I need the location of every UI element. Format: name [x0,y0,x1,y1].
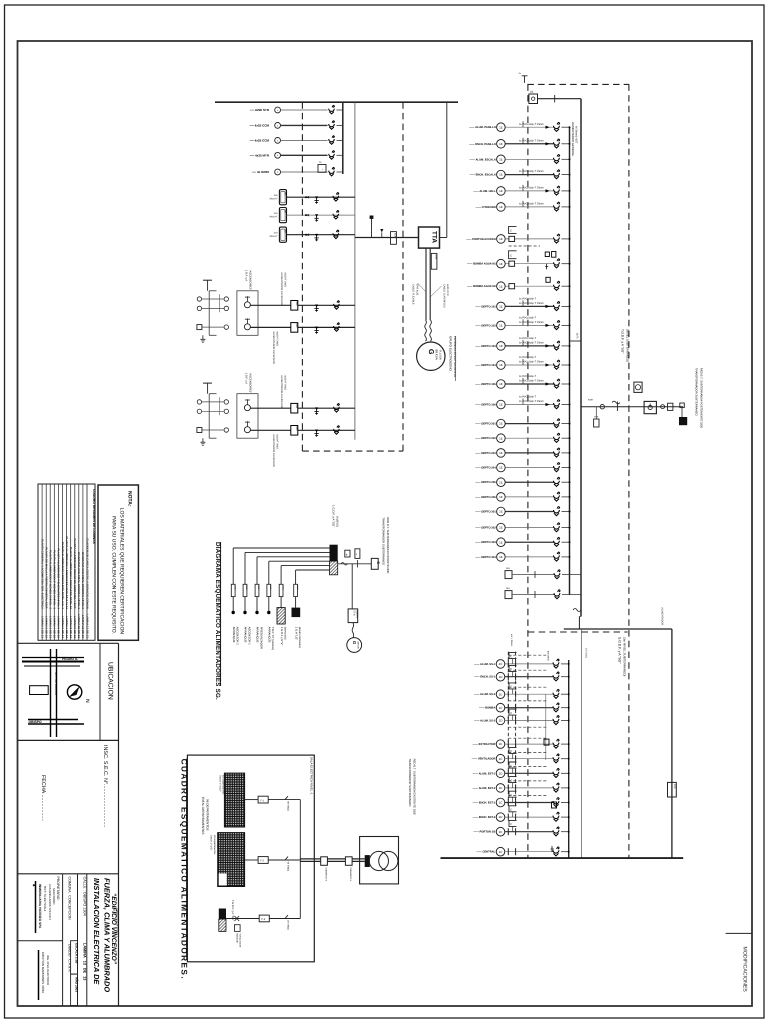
svg-text:—— ENCH. SS-1: —— ENCH. SS-1 [474,676,496,679]
motor group 1: breaker 1 [334,301,340,309]
feeder row L3 (lower right column) [474,683,570,699]
svg-text:4x16+T AWG: 4x16+T AWG [284,375,287,390]
feeder row U15 (upper right column) [475,396,570,409]
svg-text:══ 4x25 CCM: ══ 4x25 CCM [249,124,270,128]
motor group 1: starter box [237,291,258,336]
fuse circle after Q [661,405,665,409]
svg-text:25 KW(s): 25 KW(s) [287,920,290,930]
svg-text:LOS MATERIALES QUE REQUIEREN C: LOS MATERIALES QUE REQUIEREN CERTIFICACI… [119,508,125,635]
Q disconnect box [644,401,656,413]
svg-text:—— ALUM. SS-2: —— ALUM. SS-2 [474,693,496,696]
svg-text:ING. CIVIL ELECTRICO: ING. CIVIL ELECTRICO [46,955,50,986]
svg-text:88 KVA: 88 KVA [435,350,439,361]
svg-text:LAMINA 3 DE 13: LAMINA 3 DE 13 [49,616,53,638]
svg-text:1 D.F. y A: 1 D.F. y A [245,373,248,385]
svg-text:48 departamentos: 48 departamentos [222,775,225,795]
feeder row U17 (upper right column) [475,433,570,442]
feeder line F5 (diagrama alimentadores) [279,566,329,646]
svg-text:4x PVC(4x6)+T: 4x PVC(4x6)+T [519,375,537,378]
svg-text:4x35: 4x35 [434,255,437,261]
svg-text:4x16+T AWG: 4x16+T AWG [276,331,279,346]
svg-text:1E: 1E [499,830,503,834]
svg-text:4x PVC(4x6)+T: 4x PVC(4x6)+T [519,298,537,301]
generator G 88KVA circle [417,342,445,370]
svg-text:(servicios): (servicios) [284,627,288,640]
dashed enclosure right: left vertical [527,84,529,858]
svg-text:C: C [510,655,512,658]
feeder row L13 (lower right column) [476,847,569,856]
feeder line F4 (diagrama alimentadores) [267,561,330,650]
svg-text:1E: 1E [499,403,503,407]
svg-text:—— ALUM. SS-1: —— ALUM. SS-1 [474,663,496,666]
feeder row U3 (upper right column) [469,155,570,164]
aux box J above wire [355,549,360,559]
motor group 2: breaker 2 [334,426,340,434]
escala sub-box [71,941,78,974]
svg-text:1E: 1E [499,382,503,386]
bus drop left block [342,102,344,174]
feeder F6 solid load [292,608,301,618]
inline box on right feeder [668,782,677,797]
wire TGDF to F-3 [226,918,259,920]
svg-text:4x PVC(4x6)+T: 4x PVC(4x6)+T [519,317,537,320]
svg-text:COMUNA : CONCEPCION: COMUNA : CONCEPCION [68,877,72,921]
svg-text:NUEVO: NUEVO [356,610,359,618]
generator connection squiggles [425,320,427,341]
svg-text:KWH: KWH [394,233,397,238]
svg-text:—— EXTRACTOR: —— EXTRACTOR [473,743,496,746]
dashed enclosure left block: bottom [302,450,403,452]
svg-text:PLANTA DE MALLA A TIERRA GENER: PLANTA DE MALLA A TIERRA GENERAL EDIF. [44,547,48,609]
map: lower horizontal street [28,719,78,721]
svg-text:RED B.T. SUBTERRANEA POSTENIEN: RED B.T. SUBTERRANEA POSTENIENTE DDE [700,368,704,428]
svg-text:48 departamentos: 48 departamentos [213,835,216,855]
meter circle on wire [600,405,604,409]
DEL feeder row D1 [505,571,512,579]
feeder row U19 (upper right column) [475,463,570,472]
motor group 2: contactor circles [224,400,228,404]
motor group 2: ICM box 2 [291,426,298,436]
svg-text:CAMARA N°1: CAMARA N°1 [349,868,352,882]
line down to TTA nuevo [351,564,353,609]
svg-text:4x6 AWG: 4x6 AWG [547,651,550,661]
motor group 1: output wire 1 [250,304,290,306]
svg-text:LAMINA 8 DE 13: LAMINA 8 DE 13 [69,616,73,638]
wire bus to pole transformer [581,406,683,408]
svg-text:LAMINA 11 DE 13: LAMINA 11 DE 13 [81,615,85,639]
svg-text:1E: 1E [499,363,503,367]
svg-text:AÑO 2003: AÑO 2003 [75,977,79,992]
svg-text:PLANTA ALUMBRADO Y ENCHUFES NI: PLANTA ALUMBRADO Y ENCHUFES NIVEL 2 AL 7 [61,542,65,609]
svg-text:LAMINA 1 DE 13: LAMINA 1 DE 13 [40,616,44,638]
svg-text:96 DEPARTAMENTOS: 96 DEPARTAMENTOS [205,799,209,831]
top bus line [215,101,458,103]
svg-text:SAN PEDRO: SAN PEDRO [52,888,56,905]
svg-text:AWG+T: AWG+T [269,198,278,201]
svg-text:LOS AVELLANOS 1234 OF.7: LOS AVELLANOS 1234 OF.7 [48,884,52,921]
svg-text:1 D.F. y A: 1 D.F. y A [245,270,248,282]
svg-text:KWH: KWH [588,399,594,402]
service entry symbol above enclosure [522,75,528,77]
lower column bus [568,660,570,858]
TGDF SG element (black+hatch) [219,909,226,920]
svg-text:—— ALUM. HALL: —— ALUM. HALL [473,190,496,193]
svg-text:(3er NIVEL SUBTERRANEO): (3er NIVEL SUBTERRANEO) [623,637,627,676]
propietario signature line [35,881,37,933]
lower column dashed row links [508,654,546,656]
svg-text:ESCALA 1:50: ESCALA 1:50 [75,943,79,963]
aux contact boxes near rows U7-U9 [545,252,549,257]
generator cable pair [425,248,427,320]
feeder row U7 (upper right column) [466,234,570,243]
svg-text:—— DEPTO 202: —— DEPTO 202 [475,437,496,440]
svg-text:LAMINA 9 DE 13: LAMINA 9 DE 13 [73,616,77,638]
svg-text:DIAGRAMA UNILINEAL GENERAL NIV: DIAGRAMA UNILINEAL GENERAL NIVEL 1 [77,552,81,609]
TTA nuevo box [348,609,358,623]
feeder line F1 (diagrama alimentadores) [231,548,329,645]
svg-text:ICM: ICM [295,426,298,430]
feeder row L10 (lower right column) [473,791,570,807]
DEL feeder row D2 [505,591,512,599]
svg-text:▪: ▪ [322,169,323,172]
TTA box [419,227,440,248]
motor group 1: ground symbol [202,335,204,339]
row U7 control dashes [509,245,540,247]
feeder row U22 (upper right column) [475,507,570,516]
E meter box [371,558,378,569]
feeder line F2 (diagrama alimentadores) [243,552,329,645]
feeder row L6 (lower right column) [473,739,570,748]
svg-text:ALIMENTADOR ASCENSOR: ALIMENTADOR ASCENSOR [272,331,275,364]
svg-text:3x32: 3x32 [257,585,260,589]
service black rect [681,408,683,417]
svg-text:1E: 1E [499,480,503,484]
wire strip1 to F-1 [245,799,259,801]
svg-text:C: C [510,668,512,671]
svg-text:E: E [376,562,381,565]
feeder row U14 (upper right column) [475,375,570,388]
transformer winding circles [369,851,388,870]
svg-text:1E: 1E [499,284,503,288]
svg-text:ARRANQUE: ARRANQUE [244,627,248,643]
map: north compass symbol [67,685,81,699]
motor group 1: antenna T [203,279,212,281]
svg-text:3x32: 3x32 [296,585,299,589]
svg-text:TTA: TTA [431,231,438,243]
svg-text:PLANTA GENERAL Y ACOMETIDA TER: PLANTA GENERAL Y ACOMETIDA TER. ELECTRIC… [40,539,44,609]
svg-text:4x16+T AWG: 4x16+T AWG [284,272,287,287]
right feeder vertical to bottom bus [671,629,673,858]
motor group 2: fuse 2 [314,430,318,437]
motor feeder row M4 (top-left block) [249,151,343,159]
motor group 2: breaker 1 [334,404,340,412]
svg-text:══ 4x GR55: ══ 4x GR55 [251,170,269,174]
title block: section divider lines [18,642,119,644]
svg-text:CALLE : OBISPO 1304: CALLE : OBISPO 1304 [83,877,87,916]
motor feeder row M5 (top-left block) [251,161,343,176]
svg-text:D: D [320,161,322,164]
motor group 2: bracket [208,394,210,439]
svg-text:—— DEPTO 203: —— DEPTO 203 [475,452,496,455]
feeder F5 hatched load [277,608,285,624]
lower column aux boxes [544,739,549,745]
switch tick on TTA feed [371,217,373,238]
svg-text:PLANTA ALUMBRADO RECINTOS COMU: PLANTA ALUMBRADO RECINTOS COMUNES Y EXT. [73,538,77,609]
small label box below TTA [431,253,437,269]
svg-text:OBISPO: OBISPO [29,720,43,724]
svg-text:RED B.T. SUBTERRANEA EXISTENTE: RED B.T. SUBTERRANEA EXISTENTE DDE [413,759,417,815]
bracket box above row U7 [509,226,517,233]
feeder row U21 (upper right column) [475,492,570,501]
motor group 1: ICM box 1 [291,301,298,311]
svg-text:CAMARA N°2: CAMARA N°2 [324,868,327,882]
svg-text:AV. P. DE VALDIVIA: AV. P. DE VALDIVIA [54,672,57,695]
feeder row U2 (upper right column) [469,138,570,148]
junction vertical in sala box [299,800,301,919]
svg-text:4x PVC(4x6)+T: 4x PVC(4x6)+T [519,356,537,359]
svg-text:1E: 1E [499,786,503,790]
bus junction marker [570,340,582,342]
svg-text:PLANTA ALUMBRADO Y ENCHUFES NI: PLANTA ALUMBRADO Y ENCHUFES NIVEL 1 [57,548,61,609]
relay row R3 (rounded box to collector) [269,227,355,242]
svg-text:C: C [510,230,512,233]
svg-text:T.G.D.F. y A “SG”: T.G.D.F. y A “SG” [231,900,234,921]
vertical feed to TTA [446,102,448,237]
svg-text:Desde 1° al 3°: Desde 1° al 3° [210,835,213,850]
dashed enclosure right: inner horizontal [528,631,628,633]
terminal strip 2 (48 dptos) [218,833,245,887]
modificaciones cell divider line [726,932,752,934]
svg-text:PLANTA ALUMBRADO Y ENCHUFES NI: PLANTA ALUMBRADO Y ENCHUFES NIVEL 12 [69,547,73,610]
svg-text:(NUEVO): (NUEVO) [335,516,338,527]
motor group 1: ICM box 2 [291,323,298,333]
motor group 2: ICM box 1 [291,403,298,413]
svg-text:—— DEPTO 201: —— DEPTO 201 [475,423,496,426]
feeder row U1 (upper right column) [469,121,570,131]
svg-text:3x32: 3x32 [269,585,272,589]
feeder row L1 (lower right column) [474,653,570,669]
svg-text:—— PORTON ACCESO: —— PORTON ACCESO [466,238,496,241]
SGDF drop light vertical [580,629,582,858]
main breaker box (D) [529,94,538,104]
svg-text:1E: 1E [499,142,503,146]
svg-text:4x PVC(4x6)+T: 4x PVC(4x6)+T [519,337,537,340]
clock box [634,382,642,392]
svg-text:POTENCIA EFECTIVA 88 KVA: POTENCIA EFECTIVA 88 KVA [453,336,457,377]
dashed enclosure right: top [527,83,629,85]
ubicacion section divider [99,643,101,740]
svg-text:TRANSFORMADOR SUBTERRANEO: TRANSFORMADOR SUBTERRANEO [408,759,412,808]
svg-text:—— DEPTO 302: —— DEPTO 302 [475,527,496,530]
svg-text:—— BOMBA AGUA N2: —— BOMBA AGUA N2 [467,285,496,288]
svg-text:4x16+T AWG: 4x16+T AWG [276,434,279,449]
svg-text:RM: RM [283,192,286,195]
svg-text:—— ALUM. ESCALA: —— ALUM. ESCALA [469,158,495,161]
svg-text:LAMINA 5 DE 13: LAMINA 5 DE 13 [57,616,61,638]
anno sub-box [71,974,78,1006]
svg-text:LAMINA 10 DE 13: LAMINA 10 DE 13 [77,615,81,639]
feeder row U24 (upper right column) [475,537,570,546]
feeder row U10 (upper right column) [475,298,570,311]
svg-text:TRANSFORMADOR SUBTERRANEO: TRANSFORMADOR SUBTERRANEO [381,517,385,566]
dashed enclosure left block: vertical 2 [402,102,404,451]
wire F-2 onward [268,859,300,861]
main bus B [580,99,582,617]
svg-text:C: C [510,823,512,826]
svg-text:em t. 25mm: em t. 25mm [510,634,513,646]
wire strip2 to F-2 [245,859,259,861]
svg-text:—— DEPTO 105: —— DEPTO 105 [475,383,496,386]
svg-text:1E: 1E [499,742,503,746]
motor group 1: input circles [197,297,201,301]
svg-text:1E: 1E [499,422,503,426]
svg-text:—— PORTON SS: —— PORTON SS [473,831,495,834]
svg-text:ASCENSOR 2: ASCENSOR 2 [236,627,240,645]
F-1 box [258,796,268,803]
svg-text:PARA SU USO, CUMPLEN CON ESTE: PARA SU USO, CUMPLEN CON ESTE REQUISITO. [111,516,117,634]
svg-text:4x35 mm2: 4x35 mm2 [446,284,449,296]
svg-text:1 G.A “LG”: 1 G.A “LG” [294,627,298,640]
svg-text:N: N [84,699,90,703]
title block: NOTA box [98,485,138,640]
motor feeder row M3 (top-left block) [249,136,343,144]
svg-text:══ 4x25 CCM: ══ 4x25 CCM [249,139,270,143]
svg-text:RM: RM [283,210,286,213]
title block: cuadro resumen de laminas table [38,484,95,640]
svg-text:(areas comunes): (areas comunes) [298,627,302,648]
svg-text:PLANTA ALUMBRADO 2° NCHES 3 NI: PLANTA ALUMBRADO 2° NCHES 3 NIVEL -1 [53,550,57,610]
svg-text:—— CITOFONO: —— CITOFONO [476,206,496,209]
svg-text:4x70mm2+35T: 4x70mm2+35T [574,126,577,144]
svg-text:—— DEPTO 106: —— DEPTO 106 [475,404,496,407]
inline fuse boxes rows U7-U9 [509,236,515,241]
double feeder line to transformer [300,858,364,860]
feeder row L8 (lower right column) [473,762,570,778]
feeder row U11 (upper right column) [475,317,570,330]
svg-text:ALIMENTADOR ASCENSOR: ALIMENTADOR ASCENSOR [280,375,283,408]
svg-text:SALA ELECTRICA NIVEL -1: SALA ELECTRICA NIVEL -1 [309,757,313,795]
svg-text:—— VENTILADOR: —— VENTILADOR [472,758,496,761]
svg-text:F-3: F-3 [261,918,265,921]
svg-text:1E: 1E [499,262,503,266]
wire from collector to TTA [355,237,419,239]
svg-text:(D): (D) [530,91,534,94]
motor group 1: breaker 2 [334,323,340,331]
F-2 box [258,857,268,864]
svg-text:—— DEPTO 204: —— DEPTO 204 [475,467,496,470]
TPS box [594,419,599,427]
svg-text:1E: 1E [499,495,503,499]
svg-text:96 KW(s): 96 KW(s) [287,862,290,872]
main title block internal lines [62,874,64,1006]
svg-text:1E: 1E [499,436,503,440]
svg-text:1E: 1E [499,510,503,514]
svg-text:1E: 1E [499,189,503,193]
svg-text:CABLE SUPERFLEX: CABLE SUPERFLEX [443,284,446,308]
svg-text:AWG+T: AWG+T [269,216,278,219]
svg-text:RUT: 76.297.530-4: RUT: 76.297.530-4 [43,886,47,912]
svg-text:—— ALUM. EST-1: —— ALUM. EST-1 [473,772,496,775]
svg-text:DIAGRAMA ESQUEMATICO ALIMENTAD: DIAGRAMA ESQUEMATICO ALIMENTADORES SG. [214,542,221,700]
svg-text:—— ENCH. EST-1: —— ENCH. EST-1 [473,802,496,805]
svg-text:FECHA ..................: FECHA .................. [40,775,46,821]
svg-text:“ASCENSORES”: “ASCENSORES” [249,373,252,394]
svg-text:INSTALACION ELECTRICA DE: INSTALACION ELECTRICA DE [92,878,101,985]
feeder row U12 (upper right column) [475,337,570,350]
svg-text:—— DEPTO 104: —— DEPTO 104 [475,364,496,367]
svg-text:PEDRO A.: PEDRO A. [62,657,78,661]
svg-text:ARRANQUE: ARRANQUE [256,627,260,643]
svg-text:EPR 4x35: EPR 4x35 [416,284,419,296]
squiggle + tick [612,401,620,404]
SGDF horizontal feeder line [564,628,672,630]
svg-text:MODIFICACIONES: MODIFICACIONES [741,947,747,993]
feeder line F6 (diagrama alimentadores) [294,570,330,648]
svg-text:ARRANQUE: ARRANQUE [232,627,236,643]
motor group 1: fuse 2 [314,327,318,334]
dashed enclosure right: right vertical [628,84,630,858]
lower column aux vertical [545,694,547,760]
main block TGDF (black+hatch) [330,545,338,561]
svg-text:1E: 1E [499,125,503,129]
svg-text:3x32: 3x32 [281,585,284,589]
svg-text:—— DEPTO 304: —— DEPTO 304 [475,556,496,559]
feeder row U5 (upper right column) [473,185,570,195]
feeder row L7 (lower right column) [472,747,570,763]
svg-text:1E: 1E [499,157,503,161]
svg-text:—— DEPTO 205: —— DEPTO 205 [475,481,496,484]
svg-text:ALIMENTADOR: ALIMENTADOR [661,607,664,625]
svg-text:—— DEPTO 102: —— DEPTO 102 [475,324,496,327]
svg-text:RED B.T. SUBTERRANEA EXISTENTE: RED B.T. SUBTERRANEA EXISTENTE DDE [386,517,390,573]
svg-text:ASCENSOR 1: ASCENSOR 1 [247,627,251,645]
svg-text:RM: RM [283,230,286,233]
svg-text:1E: 1E [499,451,503,455]
aux symbol below TGDF wire [235,925,241,932]
svg-text:CRISTIAN MARDONES VERA: CRISTIAN MARDONES VERA [41,952,45,993]
svg-text:TOTALIZADOR: TOTALIZADOR [238,933,241,947]
motor group 1: contactor circles [224,297,228,301]
svg-text:1E: 1E [499,555,503,559]
svg-text:4x70: 4x70 [575,333,578,339]
svg-text:4S KW(s): 4S KW(s) [585,648,588,658]
svg-text:—— BOMBA: —— BOMBA [479,707,495,710]
svg-text:G: G [352,641,357,644]
svg-text:MEDIDOR: MEDIDOR [236,933,239,943]
motor group 1: bracket [208,291,210,336]
feeder row L5 (lower right column) [474,709,570,725]
svg-text:—— CENTRAL: —— CENTRAL [476,851,495,854]
transformer black terminal [365,855,370,867]
svg-text:CABLE FLEXIBLE: CABLE FLEXIBLE [412,284,415,305]
tick marks on DEL rows [534,571,536,578]
map: building block rectangle [30,686,49,695]
motor group 1: output wire 2 [250,326,290,328]
svg-text:3x32: 3x32 [233,585,236,589]
svg-text:—— ENCH. PASILLO: —— ENCH. PASILLO [469,143,496,146]
svg-text:3x32: 3x32 [245,585,248,589]
svg-text:LAMINA 4 DE 13: LAMINA 4 DE 13 [53,616,57,638]
svg-text:1E: 1E [499,526,503,530]
feeder row U13 (upper right column) [475,356,570,369]
fuse arrow on TTA feed [380,229,383,232]
svg-text:4x PVC(4x6)+T: 4x PVC(4x6)+T [519,396,537,399]
feeder row U16 (upper right column) [475,419,570,428]
relay row R2 (rounded box to collector) [269,208,355,223]
svg-text:—— DEPTO 101: —— DEPTO 101 [475,305,496,308]
motor group 2: starter box [237,394,258,439]
feeder row U23 (upper right column) [475,523,570,532]
